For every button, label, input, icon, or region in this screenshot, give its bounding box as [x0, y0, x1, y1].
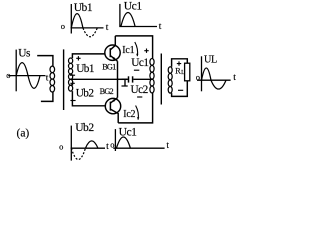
- polarity - of Uc2: [137, 96, 142, 98]
- plot Uc1 top-right: horizontal axis: [119, 26, 157, 28]
- plot Ub1 top: solid positive half sine: [71, 14, 83, 28]
- svg-text:L: L: [181, 70, 185, 76]
- transistor BG2 emitter with arrow: [110, 98, 117, 103]
- svg-text:(a): (a): [17, 128, 30, 140]
- plot Uc1 top-right: solid half sine hump: [121, 13, 135, 27]
- resistor RL box: [185, 63, 190, 81]
- transistor BG1 emitter with arrow: [110, 56, 117, 62]
- plot Ub2 bottom: dashed negative half sine: [71, 148, 85, 159]
- wire T2 secondary top to load: [172, 59, 188, 67]
- capacitor plate left: [128, 76, 130, 82]
- svg-text:o: o: [6, 70, 10, 80]
- transformer T1 secondary winding Ub2: [69, 79, 73, 91]
- wire T1 secondary bottom to BG2 base: [72, 91, 105, 106]
- transformer T2 core: [160, 54, 162, 105]
- svg-text:BG1: BG1: [102, 62, 116, 71]
- transformer T2 primary winding: [150, 58, 154, 93]
- svg-text:t: t: [233, 73, 236, 83]
- wire source top lead: [37, 56, 53, 67]
- svg-text:o: o: [110, 139, 114, 149]
- plot Ub2 bottom: vertical axis: [70, 126, 72, 161]
- wire T1 secondary top to BG1 base: [72, 54, 104, 58]
- plot Ub2 bottom: horizontal axis: [71, 147, 105, 149]
- svg-text:BG2: BG2: [100, 87, 114, 96]
- capacitor plate right: [132, 76, 134, 82]
- transistor BG1 collector: [110, 36, 115, 50]
- transistor BG1 base bar: [109, 48, 111, 57]
- wire load bottom to T2 secondary: [172, 81, 188, 97]
- svg-text:Uc1: Uc1: [119, 125, 138, 138]
- polarity + of Ub2: [70, 81, 74, 85]
- polarity - of RL: [178, 89, 183, 91]
- plot Ub2 bottom: solid positive half sine: [85, 141, 98, 148]
- plot UL right: horizontal axis: [197, 79, 231, 81]
- wire source bottom lead: [41, 92, 53, 101]
- polarity - of Ub2: [70, 100, 75, 102]
- polarity + of Ub1: [76, 56, 80, 60]
- svg-text:Ub1: Ub1: [76, 63, 94, 75]
- polarity + of RL: [177, 61, 181, 65]
- plot Uc1 bottom: vertical axis: [114, 129, 116, 151]
- plot Us left: vertical axis: [15, 50, 17, 92]
- svg-text:o: o: [61, 21, 65, 31]
- plot Ub1 top: vertical axis: [70, 4, 72, 34]
- bottom rail collector BG2 to T2: [118, 93, 152, 123]
- svg-text:t: t: [106, 142, 109, 152]
- polarity - of Uc1: [134, 69, 139, 71]
- plot Uc1 bottom: horizontal axis: [113, 147, 164, 149]
- wire emitter rail to battery: [118, 78, 128, 80]
- plot Uc1 bottom: solid half sine hump: [116, 137, 130, 148]
- svg-text:Uc1: Uc1: [131, 57, 148, 69]
- svg-text:t: t: [106, 23, 109, 33]
- svg-text:Uc1: Uc1: [124, 0, 143, 13]
- plot Ub1 top: horizontal axis: [71, 27, 104, 29]
- plot UL right: vertical axis: [201, 56, 203, 91]
- battery short plate (I-beam mark): [122, 79, 128, 86]
- svg-text:Ic1: Ic1: [122, 45, 134, 56]
- emitter common rail: [117, 61, 119, 97]
- polarity - of Ub1: [70, 74, 75, 76]
- transistor BG2 circle: [105, 98, 120, 113]
- svg-text:t: t: [46, 73, 49, 83]
- svg-text:t: t: [159, 22, 162, 32]
- transistor BG1 circle: [105, 45, 120, 60]
- transformer T1 primary winding: [50, 66, 55, 92]
- plot Ub1 top: dashed negative half sine: [83, 28, 97, 37]
- svg-text:Ub2: Ub2: [76, 88, 95, 100]
- svg-text:Ic2: Ic2: [123, 109, 135, 120]
- plot Us left: horizontal axis: [8, 75, 45, 77]
- svg-text:Ub2: Ub2: [75, 121, 94, 134]
- wire capacitor to T2 center tap: [133, 78, 152, 80]
- transformer T1 core: [63, 49, 65, 110]
- plot Us left: full sine wave: [16, 63, 40, 89]
- polarity + of Uc1: [144, 49, 148, 53]
- svg-text:o: o: [196, 72, 200, 82]
- transformer T1 secondary winding Ub1: [69, 58, 73, 79]
- svg-text:t: t: [166, 141, 169, 151]
- wire T1 center tap to emitter rail: [71, 78, 118, 80]
- svg-text:Uc2: Uc2: [131, 84, 149, 96]
- transformer T2 secondary winding: [168, 67, 172, 93]
- top rail collector BG1 to T2: [115, 36, 152, 59]
- arrow arc Ic1: [135, 42, 138, 56]
- transistor BG2 collector: [110, 109, 118, 123]
- plot UL right: full sine wave: [202, 68, 227, 89]
- svg-text:o: o: [59, 142, 63, 152]
- plot Uc1 top-right: vertical axis: [119, 4, 121, 27]
- svg-text:Ub1: Ub1: [74, 1, 93, 14]
- transistor BG2 base bar: [109, 102, 111, 111]
- svg-text:Us: Us: [18, 48, 31, 60]
- svg-text:UL: UL: [204, 54, 217, 65]
- arrow arc Ic2: [136, 106, 139, 120]
